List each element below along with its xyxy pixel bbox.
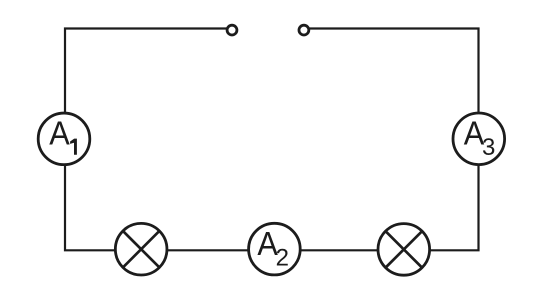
svg-text:3: 3 xyxy=(482,134,495,161)
svg-text:2: 2 xyxy=(276,245,289,272)
svg-text:A: A xyxy=(49,115,70,152)
